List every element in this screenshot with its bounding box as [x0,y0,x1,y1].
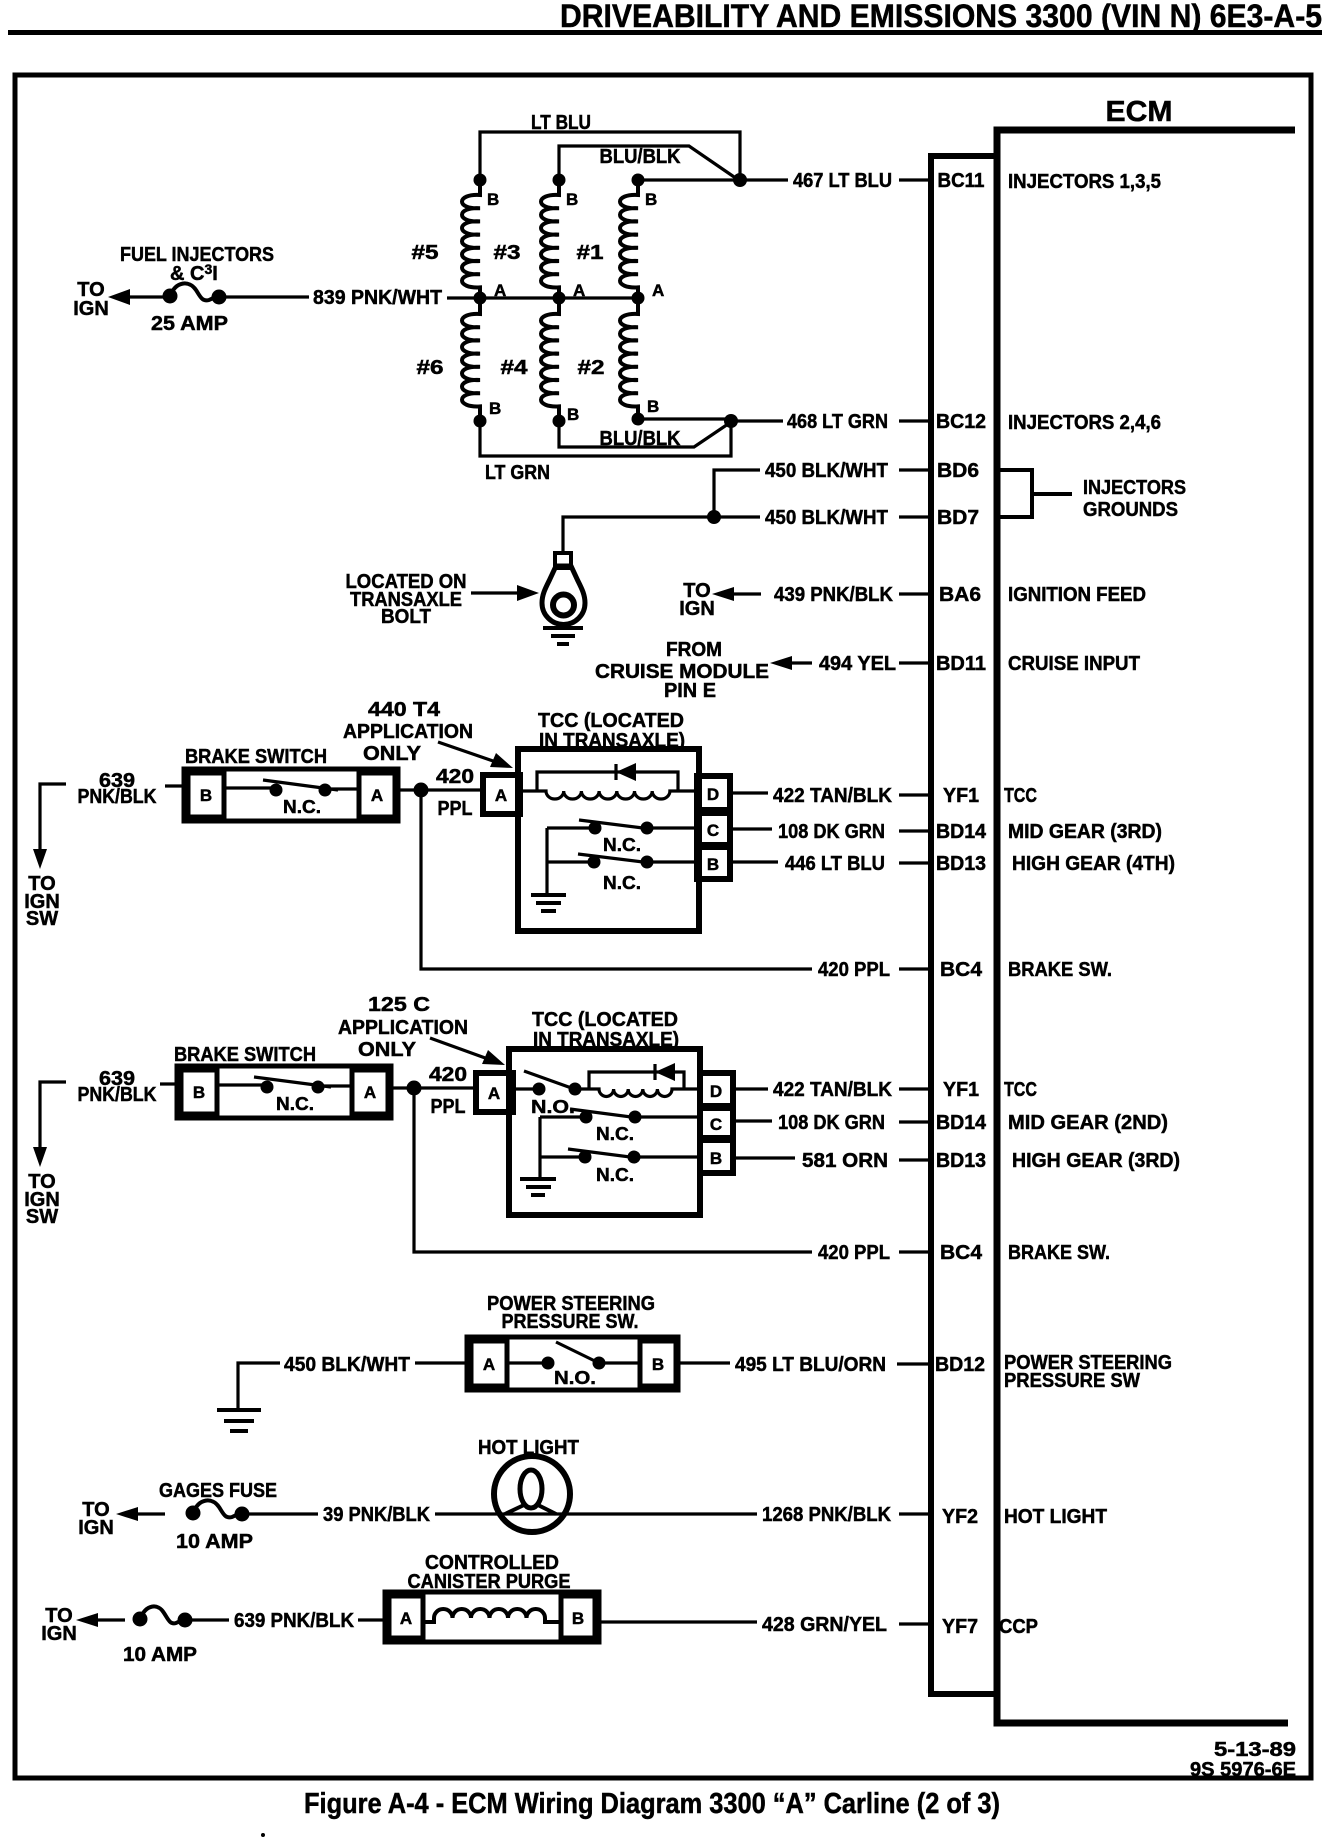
injectors grounds bracket [999,470,1032,517]
wire 450 BLK/WHT to BD7 [563,517,760,553]
wire coil1 B to junction [638,178,740,181]
svg-text:BD14: BD14 [936,821,987,843]
brake switch 2 [177,1066,391,1118]
svg-text:1268 PNK/BLK: 1268 PNK/BLK [762,1504,892,1526]
svg-text:PRESSURE SW.: PRESSURE SW. [502,1311,639,1333]
terminal C box TCC2 [700,1108,733,1138]
terminal A box TCC1 [483,775,520,814]
scan speck [261,1833,265,1837]
node coil4 B [553,415,566,428]
svg-text:422 TAN/BLK: 422 TAN/BLK [773,1079,893,1101]
svg-text:PNK/BLK: PNK/BLK [78,1084,157,1106]
arrow to ign (ccp) [94,1618,125,1621]
wire BLU/BLK top [559,146,740,181]
svg-text:ECM: ECM [1106,96,1173,128]
svg-text:B: B [710,1149,722,1168]
TCC1 ground [531,895,566,911]
TCC2 internal ground wire [538,1117,541,1178]
node coil3 B [553,174,566,187]
svg-text:BC11: BC11 [938,170,985,192]
terminal C box TCC1 [697,813,730,845]
svg-text:#1: #1 [577,242,604,264]
ground hatch under lug [543,628,583,644]
svg-text:N.C.: N.C. [276,1094,314,1114]
svg-text:BD14: BD14 [936,1112,987,1134]
svg-text:450 BLK/WHT: 450 BLK/WHT [765,460,888,482]
pin YF1 (2nd) stub wire [899,1087,933,1090]
svg-text:639 PNK/BLK: 639 PNK/BLK [234,1610,355,1632]
node bus coil3 [553,292,566,305]
svg-text:B: B [489,399,501,418]
svg-text:LT BLU: LT BLU [531,112,591,134]
wire LT GRN loop [480,421,731,456]
svg-text:440 T4: 440 T4 [368,699,441,721]
hot light bulb [494,1456,570,1532]
wire D2 to 422 label [733,1087,768,1090]
node junction 468 [724,414,738,428]
wire B2 to 581 label [733,1156,795,1159]
svg-text:TCC: TCC [1004,785,1037,807]
svg-text:BC4: BC4 [940,959,983,981]
svg-text:420: 420 [429,1064,467,1086]
svg-text:BD12: BD12 [935,1354,985,1376]
wire through bulb to 1268 label [435,1512,757,1515]
svg-text:FROM: FROM [666,639,722,661]
svg-text:B: B [200,786,212,805]
svg-text:450 BLK/WHT: 450 BLK/WHT [284,1354,410,1376]
wire coil2 B to junction [638,417,731,420]
svg-text:D: D [710,1082,722,1101]
node coil5 B [474,174,487,187]
wire fuse to 39 label [249,1512,318,1515]
arrow located on transaxle bolt [471,591,522,594]
svg-text:#3: #3 [494,242,521,264]
svg-text:APPLICATION: APPLICATION [343,721,473,743]
TCC1 internal ground wire [545,828,548,894]
svg-text:MID GEAR (2ND): MID GEAR (2ND) [1008,1112,1168,1134]
svg-text:Figure A-4 - ECM Wiring Diagra: Figure A-4 - ECM Wiring Diagram 3300 “A”… [304,1788,1000,1820]
ground (power steering) [217,1410,261,1431]
injector coil #2 [620,298,638,419]
svg-text:#5: #5 [412,242,439,264]
svg-text:MID GEAR (3RD): MID GEAR (3RD) [1008,821,1162,843]
node 420 junction 1 [414,783,429,798]
pin BC4 (2nd) stub wire [899,1250,933,1253]
pin BD11 stub wire [899,661,933,664]
node bus coil5 [474,292,487,305]
fuse 25 amp [163,289,178,304]
wire 450 BLK/WHT to BD6 [714,470,760,517]
wire 639 stub to brake switch [165,784,184,787]
wire B to 446 label [730,860,778,863]
svg-text:IGN: IGN [41,1623,77,1645]
ground lug on transaxle bolt [542,553,585,625]
wire CCP B to 428 label [599,1620,757,1623]
diode CR2 [653,1064,656,1080]
pin BC11 stub wire [899,178,933,181]
svg-text:BRAKE SW.: BRAKE SW. [1008,1242,1110,1264]
svg-text:PPL: PPL [431,1096,466,1118]
pin BD14 (2nd) stub wire [899,1120,933,1123]
ECM box outline (open right) [997,130,1295,1723]
svg-text:BLU/BLK: BLU/BLK [600,428,682,450]
svg-text:420 PPL: 420 PPL [818,959,890,981]
svg-text:B: B [566,190,578,209]
svg-text:125 C: 125 C [368,994,430,1016]
svg-text:INJECTORS 2,4,6: INJECTORS 2,4,6 [1008,412,1161,434]
arrow to ign [126,295,165,298]
wire 639 elbow to ign sw [40,784,66,857]
svg-text:494 YEL: 494 YEL [819,653,896,675]
svg-text:TCC: TCC [1004,1079,1037,1101]
terminal D box TCC1 [697,776,730,810]
svg-text:BC12: BC12 [936,411,986,433]
TCC2 diode loop [589,1072,684,1089]
ECM connector strip [931,156,997,1694]
svg-text:N.C.: N.C. [596,1165,634,1185]
wire 839 bus A [447,296,638,299]
wire PS switch B to 495 label [678,1361,730,1364]
svg-text:BRAKE SW.: BRAKE SW. [1008,959,1112,981]
svg-text:10 AMP: 10 AMP [123,1644,197,1666]
svg-text:BD13: BD13 [936,1150,986,1172]
svg-text:9S 5976-6E: 9S 5976-6E [1190,1759,1296,1781]
TCC2 ground [520,1179,556,1195]
TCC1 diode loop [537,772,678,790]
svg-text:439 PNK/BLK: 439 PNK/BLK [774,584,894,606]
node coil6 B [474,415,487,428]
TCC1 solenoid coil [520,791,697,799]
svg-text:39 PNK/BLK: 39 PNK/BLK [323,1504,430,1526]
svg-text:BRAKE SWITCH: BRAKE SWITCH [174,1044,316,1066]
svg-text:INJECTORS 1,3,5: INJECTORS 1,3,5 [1008,171,1161,193]
node bus coil1 [632,292,645,305]
svg-text:SW: SW [26,1206,58,1228]
svg-text:108 DK GRN: 108 DK GRN [778,821,885,843]
wire C to 108 label [730,827,772,830]
pin BD6 stub wire [899,468,933,471]
wire 420 PPL to BC4 2 [414,1088,812,1252]
svg-text:N.O.: N.O. [531,1097,575,1117]
svg-text:YF1: YF1 [943,785,979,807]
svg-text:BD11: BD11 [936,653,986,675]
svg-text:422 TAN/BLK: 422 TAN/BLK [773,785,893,807]
wire 420 PPL to BC4 [421,790,812,969]
wire 467 LT BLU [740,178,788,181]
svg-text:N.C.: N.C. [603,835,641,855]
node junction 467 [733,173,747,187]
svg-text:108 DK GRN: 108 DK GRN [778,1112,885,1134]
svg-text:BRAKE SWITCH: BRAKE SWITCH [185,746,327,768]
svg-text:B: B [652,1355,664,1374]
wire BLU/BLK bottom [559,421,731,447]
TCC solenoid box 1 [518,749,699,931]
wire 639 stub to brake switch 2 [160,1082,177,1085]
svg-text:A: A [495,786,507,805]
svg-text:N.C.: N.C. [603,873,641,893]
svg-text:IGN: IGN [679,598,715,620]
wire fuse to 639 label [192,1618,229,1621]
svg-text:B: B [567,405,579,424]
svg-text:ONLY: ONLY [358,1039,417,1061]
svg-text:HIGH GEAR (3RD): HIGH GEAR (3RD) [1012,1150,1180,1172]
svg-text:YF2: YF2 [942,1506,978,1528]
injector coil #3 [541,180,559,298]
svg-text:SW: SW [26,908,58,930]
svg-text:BD13: BD13 [936,853,986,875]
power steering pressure switch [467,1337,678,1390]
node 420 junction 2 [407,1081,422,1096]
injector coil #1 [620,180,638,298]
arrow to ign (gages) [134,1512,165,1515]
svg-text:5-13-89: 5-13-89 [1214,1739,1296,1761]
svg-text:A: A [400,1609,412,1628]
injector coil #5 [462,180,480,298]
terminal B box TCC1 [697,847,730,879]
svg-text:HIGH GEAR (4TH): HIGH GEAR (4TH) [1012,853,1175,875]
controlled canister purge solenoid [385,1592,599,1642]
svg-text:BOLT: BOLT [381,606,431,628]
pin BC4 stub wire [899,967,933,970]
wire brake switch 2 to TCC A [391,1086,476,1089]
svg-text:BD6: BD6 [937,460,979,482]
svg-text:PNK/BLK: PNK/BLK [78,786,157,808]
TCC2 solenoid coil [575,1089,700,1097]
TCC1 switch to C (N.C.) [547,820,697,855]
svg-text:420: 420 [436,766,474,788]
svg-text:ONLY: ONLY [363,743,422,765]
svg-text:N.C.: N.C. [283,797,321,817]
svg-text:B: B [645,190,657,209]
pin YF1 stub wire [899,793,933,796]
TCC2 switch to C (N.C.) [540,1109,700,1144]
svg-text:B: B [193,1083,205,1102]
svg-text:C: C [710,1115,722,1134]
TCC2 input switch (N.O.) [513,1071,582,1117]
diode CR1 [614,764,617,780]
svg-text:B: B [647,397,659,416]
injector coil #6 [462,298,480,421]
svg-text:420 PPL: 420 PPL [818,1242,890,1264]
terminal D box TCC2 [700,1073,733,1106]
svg-text:PPL: PPL [438,798,473,820]
svg-text:YF7: YF7 [942,1616,978,1638]
svg-text:TCC (LOCATED: TCC (LOCATED [538,710,684,732]
svg-text:PRESSURE SW: PRESSURE SW [1004,1370,1140,1392]
svg-text:BD7: BD7 [937,507,979,529]
wire C2 to 108 label [733,1119,772,1122]
svg-text:DRIVEABILITY AND EMISSIONS 330: DRIVEABILITY AND EMISSIONS 3300 (VIN N) … [560,0,1322,34]
wire fuse to 839 label [225,295,309,298]
svg-text:B: B [487,190,499,209]
svg-text:A: A [483,1355,495,1374]
svg-text:450 BLK/WHT: 450 BLK/WHT [765,507,888,529]
svg-text:PIN E: PIN E [664,680,716,702]
svg-text:GAGES FUSE: GAGES FUSE [159,1480,277,1502]
svg-text:LT GRN: LT GRN [485,462,550,484]
svg-text:CCP: CCP [999,1616,1038,1638]
arrow to ign (BA6 row) [730,592,761,595]
wire label to CCP A [358,1618,385,1621]
svg-text:468 LT GRN: 468 LT GRN [787,411,888,433]
svg-text:BC4: BC4 [940,1242,983,1264]
svg-text:C: C [707,821,719,840]
svg-text:#4: #4 [501,357,529,379]
arrow from cruise module [788,661,812,664]
TCC solenoid box 2 [509,1049,700,1215]
svg-text:N.C.: N.C. [596,1124,634,1144]
svg-text:N.O.: N.O. [554,1368,596,1388]
wire D to 422 label [730,791,768,794]
svg-text:#2: #2 [578,357,605,379]
pin BD14 stub wire [899,829,933,832]
wire 468 LT GRN [731,419,783,422]
wire 450 BLK/WHT to ground [238,1363,280,1408]
svg-text:428 GRN/YEL: 428 GRN/YEL [762,1614,887,1636]
injector coil #4 [541,298,559,421]
terminal B box TCC2 [700,1140,733,1173]
svg-text:446 LT BLU: 446 LT BLU [785,853,885,875]
pin BD12 stub wire [897,1362,933,1365]
pin BD13 stub wire [899,861,933,864]
svg-text:A: A [371,786,383,805]
svg-text:B: B [572,1609,584,1628]
svg-text:467 LT BLU: 467 LT BLU [793,170,892,192]
svg-text:IGN: IGN [73,298,109,320]
arrow application only to TCC [438,742,496,762]
svg-text:INJECTORS: INJECTORS [1083,477,1186,499]
pin YF7 stub wire [899,1622,933,1625]
svg-text:TCC (LOCATED: TCC (LOCATED [532,1009,678,1031]
TCC2 switch to B (N.C.) [540,1149,700,1185]
svg-text:25 AMP: 25 AMP [151,313,228,335]
svg-text:GROUNDS: GROUNDS [1083,499,1178,521]
svg-text:A: A [364,1083,376,1102]
TCC1 switch to B (N.C.) [547,854,697,893]
header rule [8,30,1322,35]
pin BD13 (2nd) stub wire [899,1158,933,1161]
svg-text:10 AMP: 10 AMP [176,1531,253,1553]
arrow application only to TCC2 [430,1038,488,1059]
svg-text:581 ORN: 581 ORN [802,1150,888,1172]
wire 639 elbow to ign sw 2 [40,1082,66,1155]
svg-text:B: B [707,855,719,874]
svg-text:CRUISE INPUT: CRUISE INPUT [1008,653,1140,675]
brake switch 1 [184,769,398,821]
svg-text:BA6: BA6 [939,584,981,606]
svg-text:839 PNK/WHT: 839 PNK/WHT [313,287,442,309]
svg-text:D: D [707,785,719,804]
svg-text:IGNITION FEED: IGNITION FEED [1008,584,1146,606]
svg-text:#6: #6 [417,357,444,379]
svg-text:A: A [652,281,664,300]
svg-text:HOT LIGHT: HOT LIGHT [1004,1506,1107,1528]
wire LT BLU loop [480,132,740,180]
svg-text:A: A [488,1084,500,1103]
node coil2 B [632,413,645,426]
node 450 junction [707,510,721,524]
pin BC12 stub wire [899,419,933,422]
fuse 10 amp (gages) [186,1506,201,1521]
node coil1 B [632,174,645,187]
wire to injectors grounds label [1032,492,1072,496]
wire brake switch to TCC A [398,788,483,791]
wire label to PS switch A [415,1361,467,1364]
fuse 10 amp (ccp) [133,1612,148,1627]
pin BA6 stub wire [899,592,933,595]
svg-text:BLU/BLK: BLU/BLK [600,146,682,168]
svg-text:YF1: YF1 [943,1079,979,1101]
pin YF2 stub wire [899,1512,933,1515]
svg-text:APPLICATION: APPLICATION [338,1017,468,1039]
terminal A box TCC2 [476,1073,513,1112]
svg-text:495 LT BLU/ORN: 495 LT BLU/ORN [735,1354,886,1376]
pin BD7 stub wire [899,515,933,518]
svg-text:IGN: IGN [78,1517,114,1539]
